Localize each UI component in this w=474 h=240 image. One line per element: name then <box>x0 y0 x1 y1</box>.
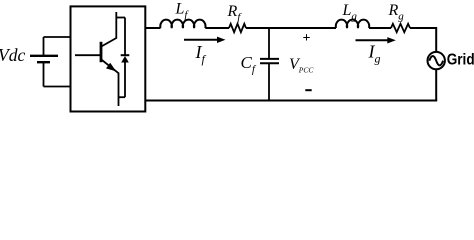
resistor R2 (Rg) <box>391 24 410 32</box>
inductor L1 (Lf) <box>160 20 205 28</box>
resistor R1 (Rf) <box>229 24 246 32</box>
wire grid source to bottom rail <box>435 69 437 100</box>
AC source V1 (Grid) <box>428 52 445 69</box>
wire inverter output to Lf <box>145 27 160 29</box>
transistor Q1 (IGBT) <box>75 12 119 106</box>
wire battery negative to inverter <box>44 86 71 88</box>
wire battery positive to inverter <box>44 36 71 38</box>
wire Rg to grid corner <box>410 28 436 52</box>
current arrow If <box>184 37 226 43</box>
wire Lf to Rf <box>205 27 229 29</box>
inductor L2 (Lg) <box>336 20 369 28</box>
wire Rf to Lg (through PCC node) <box>246 27 336 29</box>
svg-text:Grid: Grid <box>447 52 474 69</box>
svg-text:+: + <box>303 31 311 46</box>
wire Lg to Rg <box>369 27 391 29</box>
battery Vdc <box>30 37 58 87</box>
diode D1 (antiparallel) <box>116 18 129 98</box>
capacitor C1 (Cf) <box>260 28 279 101</box>
wire bottom rail <box>145 100 437 102</box>
label - (VPCC polarity) <box>305 89 311 91</box>
inverter box U1 <box>71 6 146 111</box>
current arrow Ig <box>356 37 396 43</box>
svg-text:Vdc: Vdc <box>0 45 25 65</box>
